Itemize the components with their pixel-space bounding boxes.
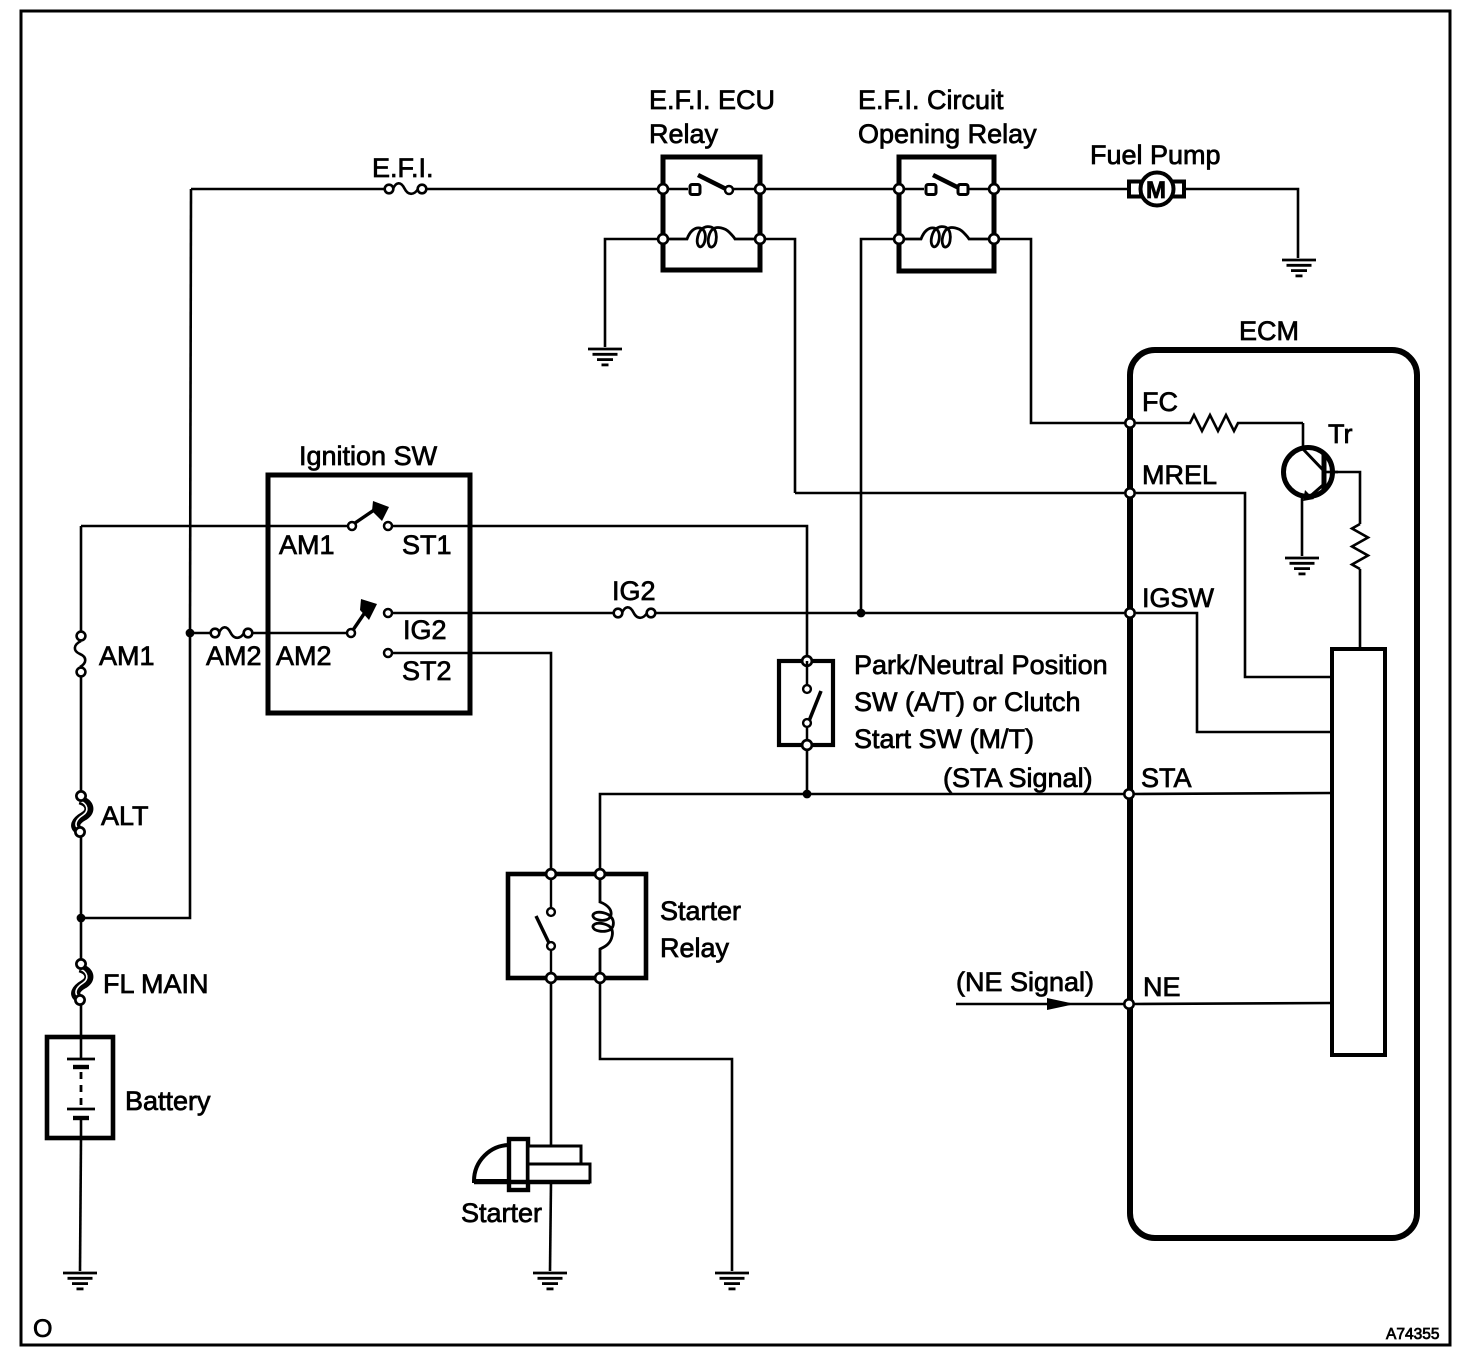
contact park/neutral lower [803,719,811,727]
fusible link FL MAIN [75,959,89,1004]
wire starter relay coil return to ground [600,984,732,1271]
relay coil opening relay [904,227,989,247]
terminal opening relay pin3 [894,234,904,244]
switch blade opening relay [933,175,959,188]
wire FC resistor to transistor base [1302,423,1305,450]
svg-text:MREL: MREL [1142,460,1217,490]
svg-text:A74355: A74355 [1386,1326,1439,1343]
svg-text:O: O [33,1315,52,1343]
switch blade AM1-ST1 [355,501,389,523]
svg-text:FL MAIN: FL MAIN [103,969,209,999]
svg-text:Opening Relay: Opening Relay [858,119,1037,149]
ground starter [533,1273,567,1289]
wire FL MAIN to battery [80,1004,83,1037]
terminal ECU relay pin4 [755,234,765,244]
wire ECU relay coil to ground [605,239,657,347]
contact ST2 [384,649,392,657]
switch starter relay [536,874,555,978]
wire starter to ground [550,1182,551,1271]
wire AM2 branch [190,632,210,635]
wire MREL external [795,492,1124,495]
starter motor symbol [474,1139,590,1190]
ground fuel pump [1282,260,1316,276]
wire park/neutral to STA line [806,750,809,794]
wire ECU relay to opening relay [766,188,899,191]
box Park/Neutral Position SW [779,661,833,745]
box Ignition SW [268,475,470,713]
terminal ECU relay pin2 [755,184,765,194]
wire ALT to junction [80,836,83,960]
ground transistor emitter [1285,558,1319,574]
wire resistor to internal bar [1359,569,1362,650]
svg-text:Ignition SW: Ignition SW [299,441,438,471]
resistor collector (vertical, inside ECM) [1352,524,1368,569]
wire ECU relay coil to MREL [766,239,795,493]
svg-text:ST1: ST1 [402,530,452,560]
internal block bar (inside ECM) [1332,649,1385,1055]
motor fuel pump [1129,173,1184,206]
wire E.F.I. feed top horizontal left of fuse [191,188,384,191]
wire transistor collector [1333,472,1360,524]
ground starter relay coil [715,1273,749,1289]
terminal starter relay bottom-right [595,973,605,983]
svg-text:IGSW: IGSW [1142,583,1215,613]
relay box Starter Relay [508,874,646,978]
contact IG2 [384,609,392,617]
switch contact (square) opening relay [926,185,936,195]
switch contact (square2) opening relay [958,185,968,195]
terminal starter relay top-left [546,869,556,879]
svg-text:IG2: IG2 [612,576,656,606]
switch blade park/neutral [809,691,821,721]
svg-text:(NE Signal): (NE Signal) [956,967,1094,997]
wire MREL to internal bar [1136,493,1332,677]
switch contact (circle) ECU relay [725,186,733,194]
switch contact (square) ECU relay [690,185,700,195]
wire IG2 to fuse [393,612,613,615]
wire IG2 fuse to IGSW pin [655,612,1124,615]
terminal park/neutral top [802,656,812,666]
junction STA line [803,790,812,799]
svg-text:AM1: AM1 [99,641,155,671]
wire STA to internal bar [1134,793,1332,794]
wire starter relay to starter [550,984,553,1146]
junction opening relay coil on IGSW line [857,609,866,618]
junction AM2 branch [186,629,195,638]
wire EFI branch to battery column [81,633,190,918]
contact AM1 [348,522,356,530]
relay box E.F.I. Circuit Opening Relay [899,157,994,271]
pin IGSW [1125,608,1134,617]
pin MREL [1125,488,1134,497]
wire fuel pump to ground [1186,189,1298,258]
wire AM2 fuse to contact [252,632,346,635]
svg-text:AM2: AM2 [276,641,332,671]
wire IGSW to internal bar [1136,613,1332,732]
pin FC [1125,418,1134,427]
terminal opening relay pin2 [989,184,999,194]
transistor Tr [1284,448,1339,502]
wire NE signal with arrow [956,1003,1124,1006]
wire ST2 to starter relay [393,653,551,874]
fuse AM1 (vertical) [75,632,86,677]
pin STA [1124,789,1133,798]
svg-text:M: M [1146,177,1166,204]
svg-text:Start SW (M/T): Start SW (M/T) [854,724,1034,754]
svg-text:ST2: ST2 [402,656,452,686]
terminal starter relay top-right [595,869,605,879]
contact AM2 [347,629,355,637]
svg-text:E.F.I. ECU: E.F.I. ECU [649,85,775,115]
terminal starter relay bottom-left [546,973,556,983]
switch blade ECU relay [698,175,726,189]
wire fuse to ECU relay [426,188,663,191]
svg-text:Starter: Starter [660,896,741,926]
svg-text:FC: FC [1142,387,1178,417]
fuse E.F.I. [385,183,427,194]
contact ST1 [384,522,392,530]
ground ECU relay [588,349,622,365]
wire STA line to starter relay [600,794,1124,874]
svg-text:Tr: Tr [1328,419,1352,449]
svg-text:Starter: Starter [461,1198,542,1228]
resistor FC (inside ECM) [1136,415,1303,431]
wire park/neutral top stub [806,661,809,685]
junction battery column [77,914,86,923]
fuse IG2 [614,607,656,618]
wire ST1 to park/neutral SW [393,526,807,656]
terminal ECU relay pin3 [658,234,668,244]
svg-text:E.F.I.: E.F.I. [372,153,434,183]
svg-text:Relay: Relay [649,119,719,149]
relay coil ECU relay [668,227,755,247]
pin NE [1124,999,1133,1008]
wire transistor emitter to ground [1301,497,1304,556]
svg-text:Fuel Pump: Fuel Pump [1090,140,1221,170]
wire opening relay coil to FC [1000,239,1125,423]
relay box E.F.I. ECU Relay [663,157,760,270]
wire AM1 fuse to ALT [80,677,83,792]
wire battery to ground [80,1138,81,1271]
terminal ECU relay pin1 [658,184,668,194]
svg-text:STA: STA [1141,763,1192,793]
svg-text:AM2: AM2 [206,641,262,671]
svg-text:NE: NE [1143,972,1181,1002]
ground battery [63,1273,97,1289]
svg-text:ALT: ALT [101,801,149,831]
svg-text:ECM: ECM [1239,316,1299,346]
fusible link ALT [75,791,89,836]
fuse AM2 [211,627,253,638]
wire AM1 column upper [80,526,83,632]
svg-text:E.F.I. Circuit: E.F.I. Circuit [858,85,1004,115]
svg-text:IG2: IG2 [403,615,447,645]
contact park/neutral upper [803,685,811,693]
terminal opening relay pin1 [894,184,904,194]
svg-text:Battery: Battery [125,1086,211,1116]
wire battery feed from top-left corner down [190,189,191,633]
relay coil starter relay (vertical) [593,874,613,978]
svg-text:Park/Neutral Position: Park/Neutral Position [854,650,1108,680]
wire NE to internal bar [1134,1003,1332,1004]
switch blade AM2-IG2 [353,599,377,630]
wire opening relay coil to IGSW line [861,239,893,609]
svg-text:AM1: AM1 [279,530,335,560]
svg-text:Relay: Relay [660,933,730,963]
wire park/neutral bottom stub [806,727,809,745]
ECM box [1130,350,1417,1238]
wire opening relay to fuel pump [1000,188,1128,191]
battery [47,1037,113,1138]
terminal park/neutral bottom [802,740,812,750]
terminal opening relay pin4 [989,234,999,244]
svg-text:SW (A/T) or Clutch: SW (A/T) or Clutch [854,687,1081,717]
svg-text:(STA Signal): (STA Signal) [943,763,1093,793]
wire AM1 feed [81,525,347,528]
